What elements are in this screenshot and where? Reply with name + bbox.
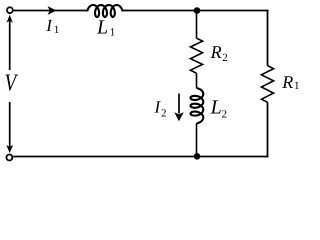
wire R2 to L2 bbox=[196, 73, 198, 88]
current arrow I2 bbox=[174, 94, 183, 122]
svg-text:2: 2 bbox=[161, 107, 167, 119]
svg-text:L: L bbox=[210, 96, 222, 118]
voltage arrow V lower (points down) bbox=[6, 102, 13, 153]
node junction top bbox=[194, 7, 201, 14]
inductor L1 bbox=[88, 5, 123, 17]
wire top-right segment bbox=[122, 10, 268, 12]
label L1 bbox=[96, 17, 115, 39]
svg-text:I: I bbox=[45, 16, 53, 35]
wire bottom bbox=[13, 156, 268, 158]
svg-text:1: 1 bbox=[54, 24, 60, 36]
svg-text:2: 2 bbox=[222, 108, 228, 120]
svg-text:V: V bbox=[5, 69, 19, 96]
svg-text:L: L bbox=[96, 17, 108, 39]
svg-text:R: R bbox=[281, 72, 293, 92]
inductor L2 bbox=[191, 88, 204, 123]
wire middle branch lower bbox=[196, 123, 198, 156]
svg-text:R: R bbox=[210, 42, 222, 62]
terminal top-left bbox=[7, 7, 13, 13]
label I2 bbox=[154, 98, 167, 120]
svg-text:1: 1 bbox=[294, 80, 300, 92]
svg-text:2: 2 bbox=[222, 52, 228, 64]
resistor R2 bbox=[190, 38, 202, 73]
node junction bottom bbox=[194, 153, 201, 160]
svg-text:1: 1 bbox=[110, 27, 116, 39]
resistor R1 bbox=[261, 66, 273, 103]
label R2 bbox=[210, 42, 228, 64]
wire right branch lower bbox=[267, 102, 269, 157]
current arrow I1 bbox=[48, 6, 57, 15]
label L2 bbox=[210, 96, 227, 120]
wire middle branch upper bbox=[196, 11, 198, 39]
label I1 bbox=[45, 16, 59, 36]
wire top-left segment bbox=[14, 10, 88, 12]
terminal bottom-left bbox=[6, 155, 12, 161]
label R1 bbox=[281, 72, 299, 92]
voltage arrow V upper (points up) bbox=[7, 15, 13, 70]
wire right branch upper bbox=[267, 10, 269, 66]
label V bbox=[5, 69, 19, 96]
